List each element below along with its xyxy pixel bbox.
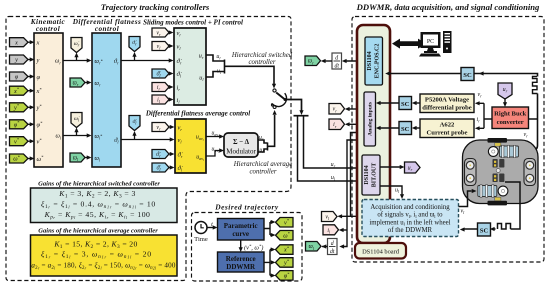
input tag x (10, 38, 29, 47)
svg-text:converter: converter (497, 119, 524, 126)
label u_r at merge (216, 54, 221, 61)
svg-text:x: x (14, 39, 18, 46)
svg-text:A622: A622 (440, 122, 455, 129)
svg-text:ur: ur (259, 135, 264, 142)
wire tag y* to kinematic control (28, 105, 35, 109)
DS1104 board outline (357, 25, 390, 243)
svg-text:ϑ̇r: ϑ̇r (156, 152, 161, 159)
svg-text:DS1104: DS1104 (364, 165, 370, 184)
label u_l modulator out (259, 148, 264, 155)
wire analog inputs v_l route (351, 133, 365, 217)
svg-text:ir: ir (477, 117, 481, 124)
robot center mark (496, 169, 500, 173)
wire reference ddwmr outputs (264, 247, 276, 277)
wire clock to parametric curve (207, 225, 218, 229)
tag theta_r-dot average (152, 150, 169, 159)
right panel dashed border (DDWMR data acquisition) (352, 17, 544, 263)
label u_l wire (331, 175, 336, 182)
wire buck to probes (475, 101, 492, 130)
pentagon tag theta_r-dot (129, 37, 140, 52)
tag i_l sliding (152, 95, 169, 104)
label: Gains of the hierarchical switched controller (38, 181, 160, 188)
label: Hierarchical switched controller (231, 52, 293, 66)
wire parametric to reference ddwmr (239, 240, 243, 252)
svg-text:y: y (36, 57, 40, 64)
svg-text:controller: controller (249, 59, 276, 66)
block: Differential flatness average control (145, 110, 250, 174)
clock icon (195, 222, 207, 234)
pentagon tag theta_l-dot lower (129, 116, 140, 131)
svg-text:DS1104: DS1104 (367, 51, 373, 70)
wire varpi_r tag to diff flatness (85, 80, 92, 84)
svg-text:Current probe: Current probe (427, 130, 468, 137)
wire d/dt to varpi_l tag (322, 244, 328, 248)
block: Analog inputs (364, 92, 376, 146)
label u_l right (395, 188, 400, 195)
wire theta_l-dot to sliding (169, 71, 174, 75)
block: Differential flatness control (72, 18, 142, 167)
wire varpi_l tag to diff flatness (85, 155, 92, 159)
tag v-star out (276, 218, 294, 228)
wire P5200A to SC1 (412, 101, 420, 105)
svg-text:Differential flatness average: Differential flatness average control (145, 110, 250, 118)
box: gains of hierarchical average controller (31, 235, 178, 276)
wire v_r to sliding (169, 30, 174, 34)
block: A622 Current probe (420, 119, 474, 138)
box: desired trajectory dashed border (192, 213, 303, 282)
box: Acquisition and conditioning (362, 200, 459, 237)
svg-text:Acquisition and conditioning: Acquisition and conditioning (370, 204, 450, 211)
svg-text:Hierarchical switched: Hierarchical switched (231, 52, 293, 59)
label u_r wire (331, 162, 336, 169)
tag u_r lavender (405, 162, 421, 173)
wire analog inputs i_l route (339, 140, 364, 249)
square wave glyph bottom (498, 224, 511, 230)
svg-text:ur: ur (216, 54, 221, 61)
tag x-star out (276, 245, 294, 255)
svg-text:φ: φ (15, 74, 19, 81)
tag omega-star out (276, 231, 294, 241)
block: Kinematic control (30, 18, 66, 167)
svg-text:Σ − Δ: Σ − Δ (233, 138, 250, 146)
svg-text:implement ul in the left wheel: implement ul in the left wheel (369, 219, 450, 226)
tag varpi_r (70, 78, 85, 87)
tag v_l sliding (152, 42, 169, 51)
tag v_r average (152, 123, 169, 132)
svg-text:controller: controller (250, 169, 277, 176)
robot top wheel (488, 138, 508, 146)
tag v_l gap (322, 212, 338, 222)
tag v_r sliding (152, 28, 169, 37)
pentagon tag omega_r-dot (71, 38, 82, 53)
switch lever (272, 93, 287, 107)
tap to theta_r-dot pentagon (132, 52, 136, 61)
switch lower contact (273, 106, 276, 109)
tag varpi_r gap (305, 56, 321, 66)
robot right caster (524, 159, 536, 186)
wire analog inputs to i_r tag (345, 122, 364, 126)
svg-text:SC: SC (401, 126, 410, 133)
robot top motor (488, 145, 518, 157)
svg-text:Parametric: Parametric (224, 222, 258, 230)
PC icon (419, 31, 452, 57)
label (v*, omega*) (244, 244, 263, 252)
svg-text:vr: vr (333, 107, 338, 114)
svg-text:vr: vr (524, 132, 529, 139)
svg-text:vr: vr (156, 125, 161, 132)
tag i_r sliding (152, 83, 169, 92)
wire u_l to DS1104 BIT.OUT (298, 116, 362, 183)
block: Sliding modes control + PI control (143, 19, 243, 106)
wire BIT.OUT u_l to acquisition (380, 186, 404, 199)
svg-text:dt: dt (330, 249, 335, 255)
tap to omega_r-dot pentagon (74, 53, 78, 61)
svg-text:Trajectory tracking controller: Trajectory tracking controllers (101, 2, 210, 12)
svg-text:of signals vl, il and ϖl to: of signals vl, il and ϖl to (377, 212, 443, 219)
input tag phi (10, 72, 29, 81)
wire SC1 to analog inputs (376, 101, 399, 105)
wire SC to acquisition box (460, 227, 478, 231)
pentagon tag u_r (498, 83, 512, 99)
svg-text:Modulator: Modulator (226, 148, 256, 156)
wire u_r u_l sliding outputs merge (206, 55, 276, 89)
label u_av_l (212, 147, 220, 155)
wire d/dt to varpi_r tag (321, 59, 332, 63)
wire tag omega* to kinematic control (28, 156, 35, 160)
block: Right Buck converter (492, 107, 529, 129)
wire u_r pentagon to buck (503, 98, 507, 107)
wire BIT.OUT to u_r tag (380, 165, 405, 169)
svg-text:curve: curve (232, 230, 249, 238)
svg-text:ϖr: ϖr (308, 59, 314, 66)
wire i_l branch (343, 229, 347, 231)
svg-text:SC: SC (463, 72, 472, 79)
square wave glyph top (533, 77, 538, 94)
robot bottom wheel (488, 197, 508, 205)
svg-text:DDWMR: DDWMR (226, 263, 256, 271)
svg-text:SC: SC (401, 101, 410, 108)
tag varpi_l gap (306, 242, 322, 252)
label: Desired trajectory (214, 203, 279, 212)
tag theta_l-dot average (152, 163, 169, 172)
wire robot left encoder to SC bottom (490, 182, 520, 231)
svg-text:Gains of the hierarchical aver: Gains of the hierarchical average contro… (38, 228, 158, 235)
SC box 2 (399, 122, 412, 135)
block: Sigma-Delta Modulator (224, 133, 258, 157)
svg-text:Reference: Reference (226, 255, 256, 263)
tag theta_l-dot sliding (152, 69, 169, 78)
svg-text:control: control (36, 25, 60, 33)
svg-text:φ: φ (37, 74, 41, 81)
wire acquisition to v_l tag (337, 214, 362, 218)
label i_r probe (477, 117, 481, 124)
svg-text:ω̇l: ω̇l (74, 116, 80, 123)
wire i_l to sliding (169, 97, 174, 101)
wire theta_r diff flatness to sliding modes (121, 58, 174, 62)
label u_av_r (212, 131, 221, 139)
svg-text:differential probe: differential probe (422, 105, 471, 112)
wire A622 to SC2 (412, 126, 420, 130)
wire v_l to sliding (169, 44, 174, 48)
svg-text:vr: vr (156, 30, 161, 37)
svg-text:ϖl: ϖl (73, 155, 79, 162)
svg-text:ir: ir (333, 122, 337, 129)
robot DDWMR body (463, 140, 539, 204)
left panel dashed border (trajectory tracking controllers) (6, 17, 291, 281)
wire theta_r-dot to average (169, 152, 175, 156)
svg-text:ξ1r = ξ1l = 3, ωn1r = ωn1l = 2: ξ1r = ξ1l = 3, ωn1r = ωn1l = 20 (41, 249, 152, 260)
wire tag phi to kinematic control (28, 74, 35, 78)
label u_l at merge (217, 69, 222, 76)
switch upper contact (273, 89, 276, 92)
input tag y* (10, 103, 29, 112)
wire tag x* to kinematic control (28, 89, 35, 93)
wire tag phi* to kinematic control (28, 122, 35, 126)
wire tag v* to kinematic control (28, 139, 35, 143)
input tag x* (10, 86, 29, 95)
svg-text:Kpr = Kpl = 45, Kir = Kil = 10: Kpr = Kpl = 45, Kir = Kil = 100 (44, 210, 151, 221)
svg-text:Sliding modes control + PI con: Sliding modes control + PI control (143, 19, 243, 27)
input tag v* (10, 137, 29, 146)
label: Gains of the hierarchical average controller (38, 228, 158, 235)
label v_r probe (478, 92, 483, 99)
tag phi-star out (276, 271, 294, 281)
d/dt block bottom (328, 239, 338, 256)
SC box 4 (478, 223, 491, 236)
tag v_r gap (329, 104, 345, 115)
label: Hierarchical average controller (233, 161, 292, 176)
block: Parametric curve (218, 219, 265, 241)
wire tag x to kinematic control (28, 40, 35, 44)
wire theta_l diff flatness to average control (121, 137, 175, 141)
svg-text:t: t (211, 221, 213, 228)
label v_l to motor (461, 209, 466, 216)
svg-text:dt: dt (334, 64, 339, 70)
block: DS1104 ENC.POS.C2 (365, 37, 383, 85)
wire u_av_l to modulator (206, 148, 224, 156)
tag varpi_l (70, 153, 85, 162)
wire robot encoder to SC to ENC.POS (385, 71, 537, 152)
svg-text:P5200A Voltage: P5200A Voltage (425, 97, 469, 104)
PC double arrow (392, 39, 426, 49)
wire SC2 to analog inputs (376, 126, 399, 130)
wire omega_r kinematic to diff flatness (63, 58, 92, 62)
label t (211, 221, 213, 228)
robot bottom connectors (493, 174, 505, 183)
svg-text:Hierarchical average: Hierarchical average (233, 161, 292, 168)
tag i_r gap (329, 119, 345, 130)
wire analog inputs to v_r tag (345, 107, 364, 111)
svg-text:ξ1r = ξ1l = 0.4, ωn1r = ωn1l =: ξ1r = ξ1l = 0.4, ωn1r = ωn1l = 10 (41, 199, 156, 210)
wire modulator outputs merge (258, 110, 277, 152)
wire omega_l kinematic to diff flatness (63, 133, 92, 137)
wire acquisition v_l to left motor (459, 189, 477, 207)
svg-text:ω̇r: ω̇r (74, 41, 80, 48)
wire switch common to T-bar (285, 100, 304, 116)
svg-text:ur: ur (408, 166, 413, 173)
svg-text:(v*, ω*): (v*, ω*) (244, 244, 263, 252)
wire ENC to d/dt top (342, 59, 365, 63)
svg-text:ϖl: ϖl (309, 244, 315, 251)
svg-text:x: x (36, 40, 40, 47)
svg-text:PC: PC (427, 39, 434, 45)
wire tag y to kinematic control (28, 57, 35, 61)
label u_r modulator out (259, 135, 264, 142)
block: P5200A Voltage differential probe (420, 94, 474, 113)
tap to theta_l-dot pentagon lower (132, 131, 136, 140)
svg-text:BIT.OUT: BIT.OUT (371, 163, 377, 187)
input tag y (10, 55, 29, 64)
svg-text:Right Buck: Right Buck (494, 111, 526, 118)
label v_r wire to robot (524, 132, 529, 139)
svg-text:control: control (95, 25, 119, 33)
svg-text:of the DDWMR: of the DDWMR (388, 227, 433, 234)
svg-text:Desired trajectory: Desired trajectory (214, 203, 279, 212)
wire i_r to sliding (169, 85, 174, 89)
d/dt block top (332, 53, 342, 70)
wire parametric curve outputs (264, 220, 276, 237)
svg-text:ϑ̇r: ϑ̇r (132, 40, 137, 47)
svg-text:Analog inputs: Analog inputs (367, 101, 373, 136)
svg-text:ur: ur (503, 87, 508, 94)
svg-text:y: y (14, 57, 18, 64)
svg-text:Time: Time (194, 236, 208, 243)
svg-text:ir: ir (157, 85, 161, 92)
wire u_r to DS1104 BIT.OUT (304, 116, 362, 170)
svg-text:DS1104 board: DS1104 board (362, 249, 400, 256)
block: Reference DDWMR (218, 252, 265, 272)
block: DS1104 BIT.OUT (362, 155, 380, 195)
SC box 3 (461, 68, 474, 81)
box: gains of hierarchical switched controller (31, 188, 178, 223)
wire u_av_r to modulator (206, 134, 224, 138)
wire theta_l-dot to average (169, 165, 175, 169)
T-bar junction (294, 115, 309, 117)
svg-text:K1 = 3, K2 = 2, K3 = 3: K1 = 3, K2 = 2, K3 = 3 (58, 189, 136, 200)
tag y-star out (276, 258, 294, 268)
title: DDWMR, data acquisition, and signal conditioning (356, 2, 540, 12)
svg-text:SC: SC (480, 228, 489, 235)
input tag phi* (10, 120, 29, 129)
robot top connectors (493, 159, 505, 168)
svg-text:Gains of the hierarchical swit: Gains of the hierarchical switched contr… (38, 181, 160, 188)
input tag omega* (10, 154, 29, 163)
svg-text:ur: ur (331, 162, 336, 169)
tap to omega_l-dot pentagon (74, 128, 78, 136)
DS1104 board label (355, 243, 406, 259)
wire v_r to average (169, 125, 175, 129)
pentagon tag omega_l-dot (71, 113, 82, 128)
svg-text:DDWMR, data acquisition, and s: DDWMR, data acquisition, and signal cond… (356, 2, 540, 12)
svg-text:vr: vr (478, 92, 483, 99)
robot left caster (465, 159, 477, 186)
label Time (194, 236, 208, 243)
title: Trajectory tracking controllers (101, 2, 210, 12)
tag i_l gap (323, 225, 339, 235)
robot bottom motor (478, 185, 508, 197)
svg-text:ϖr: ϖr (73, 80, 79, 87)
svg-text:ENC.POS.C2: ENC.POS.C2 (374, 44, 380, 79)
SC box 1 (399, 97, 412, 110)
